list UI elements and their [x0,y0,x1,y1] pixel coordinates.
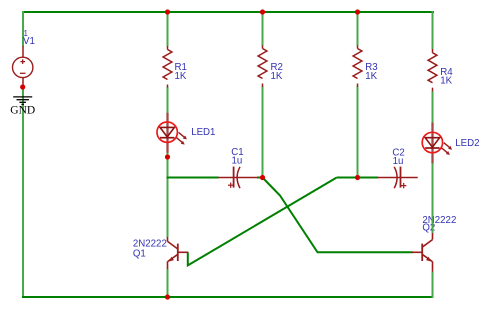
wire R1 branch top [167,12,169,47]
wire R2 branch top [262,12,264,46]
svg-text:1K: 1K [365,71,377,82]
junction LED1 cathode node [165,154,170,159]
junction C1 right node [260,175,265,180]
junction top R2 [260,9,265,14]
junction Q1 emitter bottom [165,294,170,299]
junction top R1 [165,9,170,14]
wire C1 right to node [257,177,263,179]
LED2 [422,123,452,164]
wire left vertical upper (V+ to source) [22,11,24,47]
wire C2 node to left lead [358,177,379,179]
junction top R3 [355,9,360,14]
resistor R3 [353,46,362,88]
wire LED1 node to C1 left [167,177,219,179]
svg-text:1u: 1u [393,156,404,167]
svg-text:V1: V1 [23,36,35,47]
wire LED2 to Q2 collector [432,163,434,233]
wire R1 to LED1 [167,87,169,113]
wire cross-couple C2 node to Q1 base diagonal [337,177,358,179]
svg-text:1u: 1u [232,156,243,167]
transistor Q1 [168,237,189,269]
wire R3 bottom to C2 node [357,87,359,178]
wire R4 to LED2 [432,91,434,123]
wire Q1 emitter to bottom rail [167,269,169,298]
wire R3 branch top [357,12,359,46]
wire bottom rail [22,296,434,298]
resistor R1 [163,46,172,88]
svg-text:1K: 1K [271,71,283,82]
transistor Q2 [412,233,433,272]
junction C2 left node [355,175,360,180]
resistor R2 [258,46,267,88]
svg-text:Q1: Q1 [133,248,146,259]
svg-text:GND: GND [10,104,35,116]
voltage source V1 [13,46,33,87]
wire R4 branch top [432,11,434,49]
capacitor C1 [218,167,257,189]
wire Q2 emitter to bottom rail [432,272,434,299]
wire left vertical lower (GND run) [22,87,24,298]
wire cross-couple C1 node to Q2 base diagonal [263,178,413,253]
wire R2 bottom to C1 node [262,87,264,178]
svg-text:LED1: LED1 [191,127,215,138]
wire LED1 to Q1 collector [167,153,169,238]
LED1 [157,113,187,153]
capacitor C2 [378,167,418,189]
wire diagonal to Q1 base [188,178,337,266]
ground [13,97,32,105]
svg-text:1K: 1K [440,75,452,86]
svg-text:LED2: LED2 [455,138,479,149]
junction V1 minus [20,84,25,89]
resistor R4 [428,49,437,91]
svg-text:1K: 1K [175,71,187,82]
wire top rail [22,11,434,13]
